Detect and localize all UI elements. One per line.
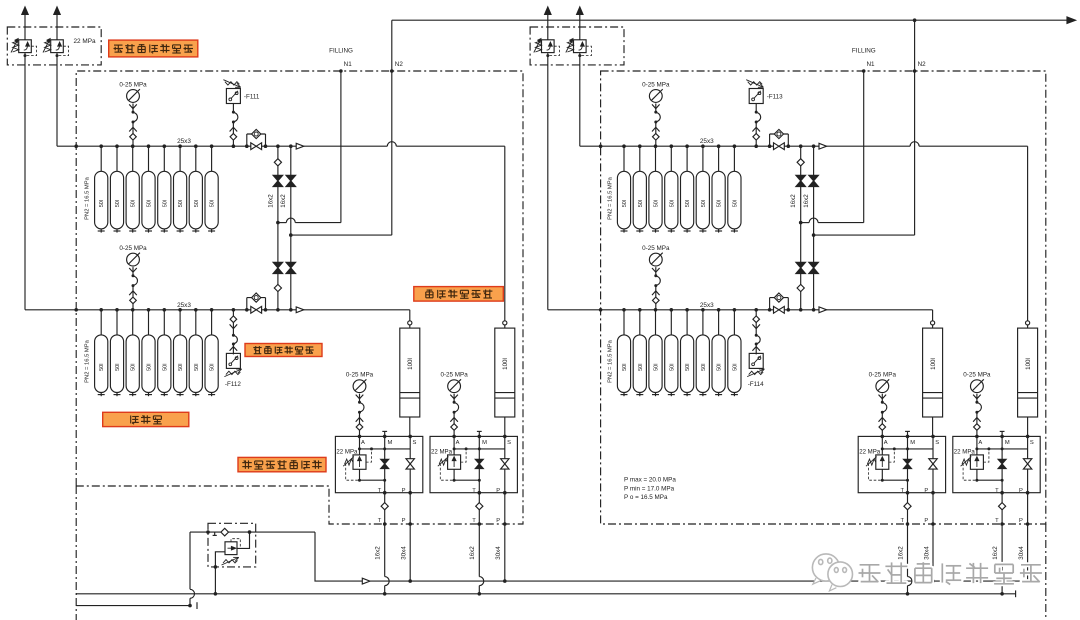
svg-text:FILLING: FILLING [329, 48, 353, 55]
node N2 L [390, 69, 394, 73]
wire pipe2 R 25x3 [548, 309, 933, 311]
node pipe2 L box crossing [74, 308, 78, 312]
svg-text:50l: 50l [115, 364, 121, 371]
svg-text:50l: 50l [685, 364, 691, 371]
wire N2 tee R [812, 233, 816, 237]
svg-text:16x2: 16x2 [280, 194, 287, 208]
svg-text:-F112: -F112 [225, 381, 241, 388]
svg-text:50l: 50l [147, 200, 153, 207]
nitrogen bottle bank lower L 8x 50l [100, 310, 102, 335]
accumulator safety block 2 L [430, 436, 517, 492]
svg-text:P o = 16.5 MPa: P o = 16.5 MPa [624, 494, 668, 501]
svg-text:P: P [402, 488, 406, 494]
wire N1 line R [863, 71, 865, 223]
flow marker pipe1 L [296, 143, 304, 149]
shutoff valve with check bypass pipe2 L [246, 298, 248, 310]
svg-text:P: P [496, 518, 500, 524]
pressure switch -F114 [755, 310, 757, 316]
flow marker pipe2 R [819, 307, 827, 313]
piston accumulator A1L 100l [408, 321, 412, 325]
wire relief RV2R to pipe1 [579, 53, 581, 147]
pressure switch -F113 [754, 144, 758, 148]
svg-text:50l: 50l [622, 364, 628, 371]
svg-text:50l: 50l [669, 364, 675, 371]
svg-text:16x2: 16x2 [992, 546, 999, 560]
svg-text:A: A [978, 440, 982, 446]
wire T collector [76, 593, 1015, 595]
node N1 L [339, 69, 343, 73]
wire pipe2 to accumulator 1 L [409, 310, 411, 321]
dash-dot unit enclosure L [76, 71, 523, 524]
label accumulator safety valve block (orange) [238, 457, 326, 471]
svg-text:50l: 50l [638, 364, 644, 371]
svg-text:S: S [935, 440, 939, 446]
svg-text:50l: 50l [685, 200, 691, 207]
piston accumulator A2L 100l [503, 321, 507, 325]
svg-text:100l: 100l [930, 358, 937, 370]
svg-text:50l: 50l [669, 200, 675, 207]
svg-text:50l: 50l [701, 364, 707, 371]
nitrogen bottle bank upper R 8x 50l [623, 146, 625, 171]
wire aux drain line [76, 605, 190, 607]
isolation line B R 16x2 [813, 146, 815, 310]
svg-text:N2: N2 [395, 61, 404, 68]
svg-text:50l: 50l [210, 200, 216, 207]
svg-text:S: S [413, 440, 417, 446]
svg-text:N1: N1 [344, 61, 353, 68]
check valve in reducing unit [221, 528, 229, 536]
svg-text:0-25 MPa: 0-25 MPa [642, 245, 670, 252]
svg-text:N1: N1 [866, 61, 875, 68]
svg-text:P max = 20.0 MPa: P max = 20.0 MPa [624, 477, 676, 484]
svg-text:16x2: 16x2 [267, 194, 274, 208]
wire top gas header with arrow [392, 19, 1068, 21]
svg-text:100l: 100l [502, 358, 509, 370]
svg-text:T: T [472, 518, 476, 524]
svg-text:22 MPa: 22 MPa [336, 449, 358, 456]
svg-text:0-25 MPa: 0-25 MPa [119, 81, 147, 88]
watermark text hydraulic transmission and control [859, 565, 881, 582]
wire reducing valve outlet to T line [215, 552, 225, 594]
svg-text:M: M [388, 440, 393, 446]
svg-text:-F113: -F113 [767, 93, 783, 100]
svg-text:0-25 MPa: 0-25 MPa [869, 372, 897, 379]
svg-text:16x2: 16x2 [897, 546, 904, 560]
svg-text:30x4: 30x4 [1018, 546, 1025, 560]
svg-text:50l: 50l [162, 364, 168, 371]
svg-text:16x2: 16x2 [790, 194, 797, 208]
nitrogen bottle bank upper L 8x 50l [100, 146, 102, 171]
wire pipe1 to accumulator 2 R [1027, 146, 1029, 321]
svg-text:50l: 50l [115, 200, 121, 207]
svg-text:T: T [901, 518, 905, 524]
wire relief RV1R to pipe2 [547, 53, 549, 310]
svg-text:0-25 MPa: 0-25 MPa [963, 372, 991, 379]
svg-text:FILLING: FILLING [852, 48, 876, 55]
svg-text:50l: 50l [147, 364, 153, 371]
node N2 R [913, 69, 917, 73]
svg-text:50l: 50l [99, 364, 105, 371]
wire N2 line L [391, 20, 393, 235]
svg-text:100l: 100l [407, 358, 414, 370]
svg-text:16x2: 16x2 [375, 546, 382, 560]
svg-text:22 MPa: 22 MPa [859, 449, 881, 456]
svg-text:P min = 17.0 MPa: P min = 17.0 MPa [624, 485, 675, 492]
svg-text:50l: 50l [194, 364, 200, 371]
svg-text:P: P [402, 518, 406, 524]
svg-text:-F111: -F111 [244, 93, 260, 100]
wire branch down to aux line [189, 532, 191, 589]
svg-text:A: A [884, 440, 888, 446]
svg-text:0-25 MPa: 0-25 MPa [440, 372, 468, 379]
reducing valve [225, 542, 237, 555]
wire pipe1 to accumulator 2 L [504, 146, 506, 321]
wire pipe1 L 25x3 [57, 145, 387, 147]
wire N1 line L [340, 71, 342, 223]
accumulator safety block 1 R [858, 436, 945, 492]
node pipe1 R box crossing [599, 144, 603, 148]
svg-text:50l: 50l [622, 200, 628, 207]
wire relief RV2L to pipe1 [56, 53, 58, 147]
wire N1 tee L [276, 221, 280, 225]
accumulator safety block 1 L [335, 436, 422, 492]
svg-text:S: S [507, 440, 511, 446]
relief valve RV1R 22 MPa [547, 14, 549, 40]
isolation line A R 16x2 [800, 146, 802, 310]
wire to reducing valve inlet [237, 532, 250, 548]
wire N1 tee R [799, 221, 803, 225]
svg-text:T: T [378, 518, 382, 524]
svg-text:50l: 50l [654, 364, 660, 371]
svg-text:22 MPa: 22 MPa [431, 449, 453, 456]
flow marker pipe2 L [296, 307, 304, 313]
svg-text:50l: 50l [131, 200, 137, 207]
svg-text:100l: 100l [1025, 358, 1032, 370]
flow marker P collector [362, 578, 370, 584]
svg-text:22 MPa: 22 MPa [74, 38, 96, 45]
svg-text:30x4: 30x4 [923, 546, 930, 560]
svg-text:PN2 = 16.5 MPa: PN2 = 16.5 MPa [607, 176, 613, 219]
svg-text:T: T [901, 488, 905, 494]
dash-dot enclosure reducing valve unit [208, 523, 256, 567]
dash-dot unit enclosure R [601, 71, 1046, 524]
shutoff valve with check bypass pipe1 R [769, 134, 771, 146]
wire reducing unit supply line [190, 531, 315, 533]
svg-text:A: A [456, 440, 460, 446]
svg-text:T: T [995, 488, 999, 494]
svg-text:16x2: 16x2 [803, 194, 810, 208]
svg-text:P: P [1019, 488, 1023, 494]
svg-text:-F114: -F114 [748, 381, 764, 388]
pressure switch -F112 [232, 310, 234, 316]
relief valve RV1L 22 MPa [24, 14, 26, 40]
pressure switch -F111 [232, 144, 236, 148]
svg-text:T: T [378, 488, 382, 494]
plug port [214, 532, 216, 535]
svg-text:50l: 50l [732, 200, 738, 207]
svg-text:50l: 50l [99, 200, 105, 207]
node N1 R [862, 69, 866, 73]
svg-text:50l: 50l [654, 200, 660, 207]
shutoff valve with check bypass pipe1 L [246, 134, 248, 146]
svg-text:PN2 = 16.5 MPa: PN2 = 16.5 MPa [607, 339, 613, 382]
svg-text:S: S [1030, 440, 1034, 446]
svg-text:P: P [496, 488, 500, 494]
node pipe2 R box crossing [599, 308, 603, 312]
wire N2 tee L [289, 233, 293, 237]
accumulator safety block 2 R [953, 436, 1040, 492]
svg-text:50l: 50l [717, 364, 723, 371]
svg-text:0-25 MPa: 0-25 MPa [119, 245, 147, 252]
svg-text:25x3: 25x3 [700, 302, 714, 309]
svg-text:A: A [361, 440, 365, 446]
svg-text:50l: 50l [701, 200, 707, 207]
svg-text:0-25 MPa: 0-25 MPa [642, 81, 670, 88]
svg-text:50l: 50l [178, 200, 184, 207]
label nitrogen bottles (orange) [103, 412, 189, 426]
svg-text:50l: 50l [162, 200, 168, 207]
dash-dot enclosure relief valves L [7, 27, 101, 65]
watermark wechat logo bubbles [812, 554, 852, 591]
svg-text:0-25 MPa: 0-25 MPa [346, 372, 374, 379]
wire N2 line R [914, 20, 916, 235]
svg-text:T: T [995, 518, 999, 524]
svg-text:50l: 50l [210, 364, 216, 371]
node pipe1 L box crossing [74, 144, 78, 148]
svg-text:16x2: 16x2 [469, 546, 476, 560]
svg-text:50l: 50l [194, 200, 200, 207]
svg-text:PN2 = 16.5 MPa: PN2 = 16.5 MPa [85, 339, 91, 382]
svg-text:P: P [924, 488, 928, 494]
svg-text:25x3: 25x3 [177, 302, 191, 309]
svg-text:25x3: 25x3 [700, 138, 714, 145]
isolation line B L 16x2 [290, 146, 292, 310]
svg-text:50l: 50l [638, 200, 644, 207]
piston accumulator A2R 100l [1026, 321, 1030, 325]
label piston accumulator (orange) [414, 287, 504, 302]
svg-text:P: P [924, 518, 928, 524]
nitrogen bottle bank lower R 8x 50l [623, 310, 625, 335]
shutoff valve with check bypass pipe2 R [769, 298, 771, 310]
wire pipe2 to accumulator 1 R [932, 310, 934, 321]
svg-text:M: M [910, 440, 915, 446]
svg-text:M: M [1005, 440, 1010, 446]
wire P collector [315, 532, 1033, 581]
label nitrogen pressure monitoring (orange) [245, 344, 322, 357]
relief valve RV2R 22 MPa [579, 14, 581, 40]
isolation line A L 16x2 [277, 146, 279, 310]
piston accumulator A1R 100l [931, 321, 935, 325]
svg-text:50l: 50l [732, 364, 738, 371]
svg-text:PN2 = 16.5 MPa: PN2 = 16.5 MPa [85, 176, 91, 219]
svg-text:50l: 50l [717, 200, 723, 207]
svg-text:50l: 50l [131, 364, 137, 371]
svg-text:25x3: 25x3 [177, 138, 191, 145]
svg-text:50l: 50l [178, 364, 184, 371]
svg-text:M: M [482, 440, 487, 446]
flow marker pipe1 R [819, 143, 827, 149]
svg-text:T: T [472, 488, 476, 494]
svg-text:30x4: 30x4 [495, 546, 502, 560]
svg-text:N2: N2 [918, 61, 927, 68]
relief valve RV2L 22 MPa [56, 14, 58, 40]
svg-text:P: P [1019, 518, 1023, 524]
label nitrogen safety relief valve (orange) [109, 40, 198, 57]
wire pipe1 R 25x3 [580, 145, 910, 147]
wire pipe2 L 25x3 [25, 309, 410, 311]
dash-dot enclosure relief valves R [530, 27, 624, 65]
svg-text:30x4: 30x4 [401, 546, 408, 560]
wire relief RV1L to pipe2 [24, 53, 26, 310]
svg-text:22 MPa: 22 MPa [954, 449, 976, 456]
